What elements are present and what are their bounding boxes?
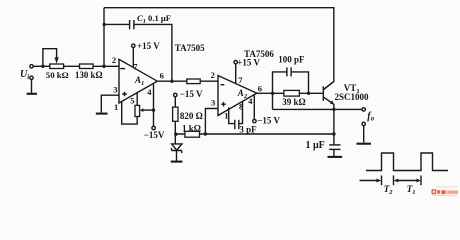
svg-text:3 pF: 3 pF <box>239 125 257 135</box>
svg-text:820 Ω: 820 Ω <box>180 111 203 121</box>
svg-text:1 μF: 1 μF <box>306 140 325 151</box>
svg-text:6: 6 <box>160 70 164 80</box>
svg-text:1: 1 <box>114 102 118 112</box>
svg-text:3: 3 <box>113 85 117 95</box>
svg-text:2SC1000: 2SC1000 <box>335 92 370 102</box>
svg-text:−15 V: −15 V <box>180 89 203 99</box>
svg-text:+15 V: +15 V <box>237 58 260 68</box>
svg-text:3: 3 <box>211 97 215 107</box>
svg-text:−15 V: −15 V <box>257 115 280 125</box>
svg-text:1: 1 <box>224 111 228 121</box>
svg-text:2: 2 <box>112 55 116 65</box>
svg-text:6: 6 <box>258 84 262 94</box>
svg-text:−15V: −15V <box>144 130 165 140</box>
svg-text:39 kΩ: 39 kΩ <box>282 97 305 107</box>
svg-text:8: 8 <box>239 101 243 111</box>
svg-text:7: 7 <box>133 61 138 71</box>
svg-text:TA7505: TA7505 <box>175 43 205 53</box>
svg-text:5: 5 <box>130 95 134 105</box>
svg-text:4: 4 <box>147 87 152 97</box>
svg-text:4: 4 <box>248 96 253 106</box>
svg-text:100 pF: 100 pF <box>278 55 305 65</box>
svg-text:7: 7 <box>238 75 243 85</box>
svg-text:2: 2 <box>211 70 215 80</box>
svg-text:130 kΩ: 130 kΩ <box>75 70 103 80</box>
svg-text:1 kΩ: 1 kΩ <box>182 123 201 133</box>
svg-text:+15 V: +15 V <box>137 41 160 51</box>
svg-text:50 kΩ: 50 kΩ <box>46 70 69 80</box>
